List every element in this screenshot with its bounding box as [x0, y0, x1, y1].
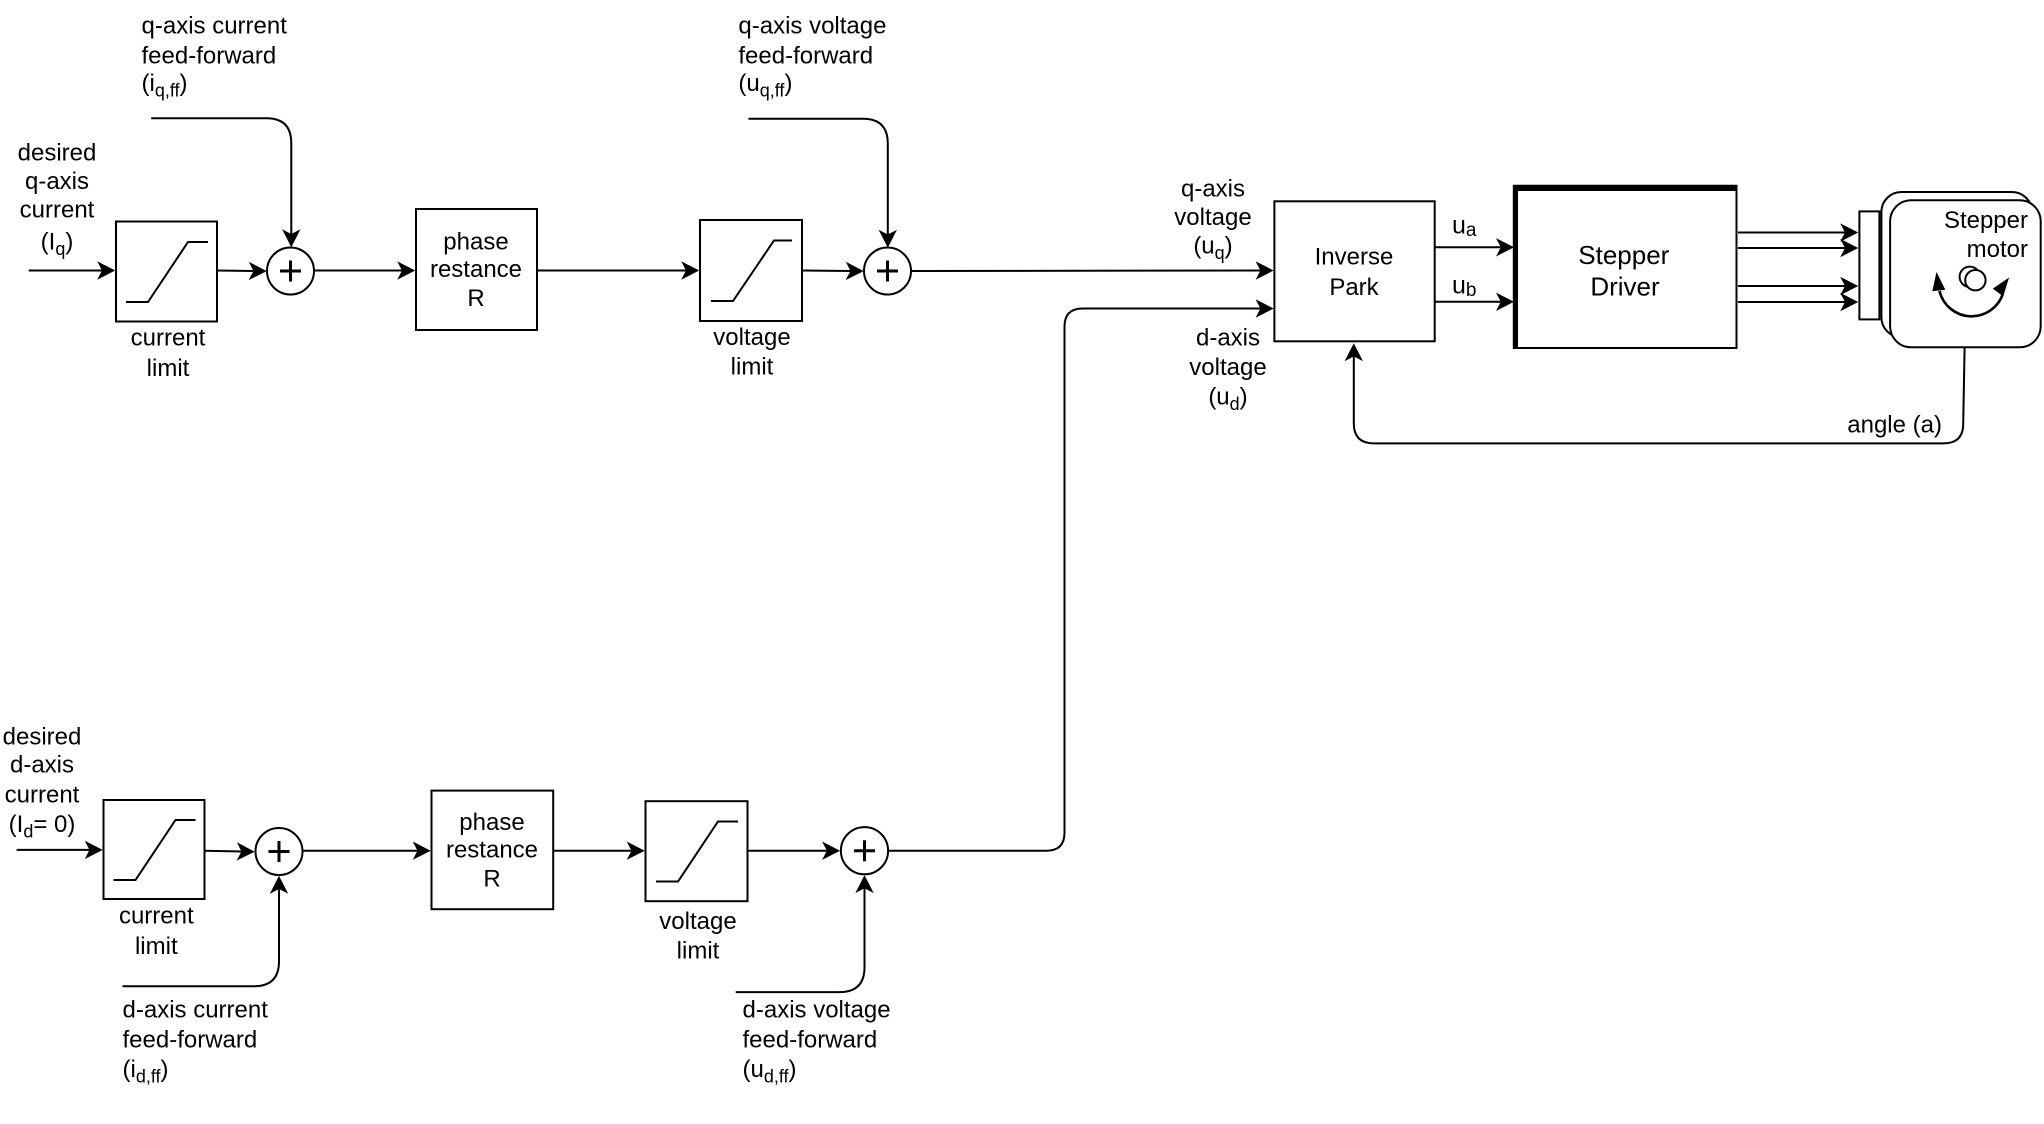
svg-text:Park: Park [1329, 274, 1379, 301]
svg-text:current: current [119, 902, 194, 929]
node d-axis voltage feed-forward label [743, 997, 891, 1087]
node d-axis current feed-forward label [123, 997, 269, 1087]
svg-text:R: R [467, 285, 484, 312]
wire driver phase line 4 [1738, 301, 1845, 303]
node q-axis voltage label [1174, 175, 1251, 263]
block phase restance R q [416, 209, 537, 330]
svg-text:restance: restance [430, 256, 522, 283]
node q-axis voltage feed-forward label [738, 13, 886, 101]
wire sum to phase resistance q [314, 270, 402, 272]
wire voltage limit to sum2 q [802, 270, 851, 273]
wire driver phase line 3 [1738, 285, 1845, 287]
svg-text:limit: limit [731, 354, 774, 381]
svg-text:phase: phase [443, 228, 508, 255]
node stepper motor label [1944, 207, 2028, 263]
wire phase resistance to voltage limit q [537, 270, 686, 272]
svg-text:q-axis voltage: q-axis voltage [738, 13, 886, 40]
stepper motor flange [1859, 211, 1879, 319]
stepper motor back body [1881, 192, 2032, 337]
wire driver phase line 1 [1738, 232, 1845, 234]
node q-axis current feed-forward label [142, 13, 288, 101]
svg-text:feed-forward: feed-forward [743, 1027, 878, 1054]
block phase restance R d [432, 791, 554, 910]
motor rotation arc [1932, 272, 2009, 316]
svg-text:Driver: Driver [1590, 272, 1660, 302]
block voltage limit d [646, 801, 748, 964]
svg-text:angle (a): angle (a) [1847, 412, 1942, 439]
node desired d-axis current label [3, 723, 82, 841]
svg-text:feed-forward: feed-forward [142, 43, 277, 70]
block current limit d [104, 800, 205, 960]
wire phase resistance to voltage limit d [553, 850, 631, 852]
wire sum2 to inverse park q [911, 270, 1260, 273]
summing junction S4 [841, 827, 888, 874]
wire driver phase line 2 [1738, 247, 1845, 249]
svg-text:phase: phase [459, 809, 524, 836]
wire voltage limit to sum2 d [748, 850, 827, 852]
svg-text:motor: motor [1967, 236, 2028, 263]
wire angle feedback [1354, 347, 1965, 443]
svg-text:d-axis voltage: d-axis voltage [743, 997, 891, 1024]
svg-text:current: current [131, 324, 206, 351]
svg-text:voltage: voltage [713, 324, 790, 351]
svg-text:limit: limit [147, 355, 190, 382]
svg-text:voltage: voltage [1189, 354, 1266, 381]
svg-text:feed-forward: feed-forward [738, 43, 873, 70]
svg-text:desired: desired [18, 139, 97, 166]
svg-text:Inverse: Inverse [1315, 243, 1394, 270]
stepper motor front body [1890, 200, 2041, 347]
wire ub [1435, 301, 1501, 303]
svg-text:voltage: voltage [659, 908, 736, 935]
svg-text:Stepper: Stepper [1944, 207, 2028, 234]
svg-text:d-axis current: d-axis current [123, 997, 269, 1024]
summing junction S1 [267, 248, 314, 295]
wire current limit to sum q [217, 270, 254, 273]
motor shaft icon [1960, 267, 1986, 291]
wire ua [1435, 246, 1501, 248]
wire sum to phase resistance d [303, 850, 418, 852]
svg-text:desired: desired [3, 723, 82, 750]
svg-text:current: current [5, 781, 80, 808]
svg-text:(uq): (uq) [1193, 233, 1232, 264]
svg-text:d-axis: d-axis [1196, 324, 1260, 351]
svg-text:q-axis current: q-axis current [142, 13, 288, 40]
svg-text:Stepper: Stepper [1578, 240, 1669, 270]
node d-axis voltage label [1189, 324, 1266, 414]
svg-text:limit: limit [135, 933, 178, 960]
summing junction S3 [256, 828, 303, 875]
wire current limit to sum d [205, 850, 242, 853]
summing junction S2 [864, 248, 911, 295]
svg-text:q-axis: q-axis [25, 168, 89, 195]
wire input q [29, 270, 102, 272]
wire sum2 d to inverse park d input [888, 309, 1260, 851]
svg-text:(Id= 0): (Id= 0) [9, 811, 76, 842]
wire d-axis current feed-forward [123, 889, 280, 986]
svg-text:voltage: voltage [1174, 204, 1251, 231]
svg-text:d-axis: d-axis [10, 751, 74, 778]
svg-text:current: current [20, 196, 95, 223]
svg-text:restance: restance [446, 837, 538, 864]
svg-text:feed-forward: feed-forward [123, 1027, 258, 1054]
block current limit q [116, 222, 217, 383]
node desired q-axis current label [18, 139, 97, 259]
svg-text:q-axis: q-axis [1181, 175, 1245, 202]
block inverse park [1274, 201, 1434, 341]
wire d-axis voltage feed-forward [736, 888, 865, 992]
svg-text:R: R [483, 866, 500, 893]
svg-text:limit: limit [677, 938, 720, 965]
wire q-axis voltage feed-forward [748, 119, 887, 235]
wire q-axis current feed-forward [151, 118, 291, 234]
svg-text:(ud): (ud) [1208, 384, 1247, 415]
block stepper driver [1515, 187, 1738, 349]
wire input d [17, 849, 90, 851]
block voltage limit q [700, 220, 802, 381]
